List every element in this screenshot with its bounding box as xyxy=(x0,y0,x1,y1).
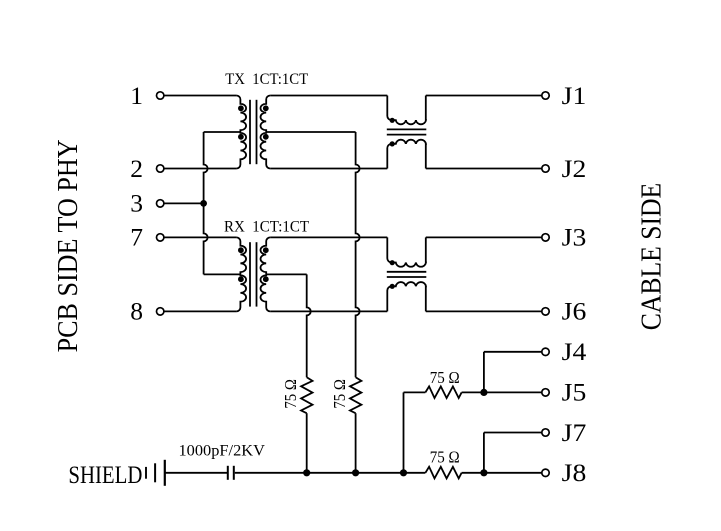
wire junction to J7 vertical xyxy=(483,433,485,473)
pin 2 terminal xyxy=(157,165,164,172)
wire R4 to J8 xyxy=(462,472,542,474)
resistor R2 75 Ohm xyxy=(350,377,361,413)
pin 1 label xyxy=(130,81,143,110)
svg-text:RX 1CT:1CT: RX 1CT:1CT xyxy=(224,218,309,235)
wire to R3 xyxy=(404,391,426,393)
wire pin7 to T2 primary top xyxy=(164,236,236,238)
wire R3 to junction xyxy=(462,391,542,393)
svg-text:2: 2 xyxy=(130,154,143,183)
pin 7 terminal xyxy=(157,234,164,241)
wire T1 secondary bottom to L1 xyxy=(270,168,387,170)
svg-text:J4: J4 xyxy=(562,337,587,366)
label TX 1CT:1CT xyxy=(225,71,308,88)
pin J4 terminal xyxy=(542,348,549,355)
node R2 ground junction xyxy=(352,469,359,476)
svg-text:1000pF/2KV: 1000pF/2KV xyxy=(179,443,266,460)
label C1 1000pF/2KV xyxy=(179,443,266,460)
pin 1 terminal xyxy=(157,92,164,99)
pin J2 terminal xyxy=(542,165,549,172)
wire L1 to J2 xyxy=(426,168,542,170)
node R1 ground junction xyxy=(303,469,310,476)
svg-text:75 Ω: 75 Ω xyxy=(430,447,460,466)
node R3/R4 branch junction xyxy=(400,469,407,476)
svg-text:J2: J2 xyxy=(562,154,587,183)
wire L1 to J1 xyxy=(426,95,542,97)
pin 8 label xyxy=(130,297,143,326)
side label CABLE SIDE xyxy=(637,183,668,331)
svg-text:J3: J3 xyxy=(562,223,587,252)
svg-text:TX 1CT:1CT: TX 1CT:1CT xyxy=(225,71,308,88)
pin J5 terminal xyxy=(542,389,549,396)
wire T2 secondary bottom to L2 xyxy=(270,310,387,312)
shield terminal bars xyxy=(146,460,165,486)
svg-text:J5: J5 xyxy=(562,378,587,407)
wire TX center-tap vertical xyxy=(356,132,360,377)
node R3 output junction xyxy=(480,389,487,396)
wire pin1 to T1 primary top xyxy=(164,95,236,97)
wire T1 primary center tap xyxy=(204,131,241,133)
pin J2 label xyxy=(562,154,587,183)
svg-text:J7: J7 xyxy=(562,418,587,447)
pin J3 terminal xyxy=(542,234,549,241)
wire L2 to J6 xyxy=(426,310,542,312)
label SHIELD xyxy=(68,460,142,489)
svg-text:PCB SIDE TO PHY: PCB SIDE TO PHY xyxy=(53,139,84,352)
common-mode choke L1 (TX) xyxy=(387,96,427,169)
resistor R1 75 Ohm xyxy=(301,377,312,413)
svg-text:7: 7 xyxy=(130,223,143,252)
wire T2 secondary center tap xyxy=(266,273,307,275)
wire T2 primary center tap xyxy=(204,273,241,275)
label R4 75 Ohm xyxy=(430,447,460,466)
side label PCB SIDE TO PHY xyxy=(53,139,84,352)
wire junction to J4 vertical xyxy=(483,352,485,393)
wire T1 secondary center tap xyxy=(266,131,355,133)
pin J1 label xyxy=(562,81,587,110)
wire pin8 to T2 primary bottom xyxy=(164,310,236,312)
wire R1 to ground bus xyxy=(306,413,308,473)
svg-text:8: 8 xyxy=(130,297,143,326)
pin J3 label xyxy=(562,223,587,252)
svg-text:CABLE SIDE: CABLE SIDE xyxy=(637,183,668,331)
pin 2 label xyxy=(130,154,143,183)
pin 3 terminal xyxy=(157,200,164,207)
wire to J4 xyxy=(484,351,542,353)
wire pin3 to node xyxy=(164,202,204,204)
node pin3 junction xyxy=(200,200,207,207)
svg-text:75 Ω: 75 Ω xyxy=(330,379,349,409)
label R1 75 Ohm xyxy=(281,379,300,409)
wire T2 secondary top to L2 xyxy=(270,236,387,238)
pin J1 terminal xyxy=(542,92,549,99)
pin 3 label xyxy=(130,189,143,218)
wire R2 to ground bus xyxy=(355,413,357,473)
capacitor C1 xyxy=(228,466,234,480)
pin 7 label xyxy=(130,223,143,252)
wire pin2 to T1 primary bottom xyxy=(164,168,236,170)
wire shield to C1 xyxy=(165,472,227,474)
pin J6 label xyxy=(562,297,587,326)
svg-text:J8: J8 xyxy=(562,458,587,487)
wire to J7 xyxy=(484,432,542,434)
wire C1 to R4 xyxy=(235,472,426,474)
wire T1 secondary top to L1 xyxy=(270,95,387,97)
pin J6 terminal xyxy=(542,308,549,315)
resistor R3 75 Ohm xyxy=(425,386,461,398)
label R3 75 Ohm xyxy=(430,368,460,387)
wire L2 to J3 xyxy=(426,236,542,238)
pin J7 label xyxy=(562,418,587,447)
svg-text:SHIELD: SHIELD xyxy=(68,460,142,489)
transformer T2 RX 1CT:1CT xyxy=(236,237,270,311)
pin J7 terminal xyxy=(542,429,549,436)
svg-text:1: 1 xyxy=(130,81,143,110)
pin 8 terminal xyxy=(157,308,164,315)
svg-text:3: 3 xyxy=(130,189,143,218)
common-mode choke L2 (RX) xyxy=(387,237,427,311)
wire bus to R3 vertical xyxy=(403,392,405,472)
node R4 output junction xyxy=(480,469,487,476)
svg-text:J1: J1 xyxy=(562,81,587,110)
resistor R4 75 Ohm xyxy=(425,467,461,479)
transformer T1 TX 1CT:1CT xyxy=(236,96,270,169)
svg-text:75 Ω: 75 Ω xyxy=(281,379,300,409)
label RX 1CT:1CT xyxy=(224,218,309,235)
wire center-tap branch vertical xyxy=(204,132,208,274)
pin J4 label xyxy=(562,337,587,366)
pin J8 terminal xyxy=(542,469,549,476)
wire RX center-tap vertical xyxy=(307,274,311,377)
label R2 75 Ohm xyxy=(330,379,349,409)
pin J8 label xyxy=(562,458,587,487)
svg-text:75 Ω: 75 Ω xyxy=(430,368,460,387)
pin J5 label xyxy=(562,378,587,407)
svg-text:J6: J6 xyxy=(562,297,587,326)
